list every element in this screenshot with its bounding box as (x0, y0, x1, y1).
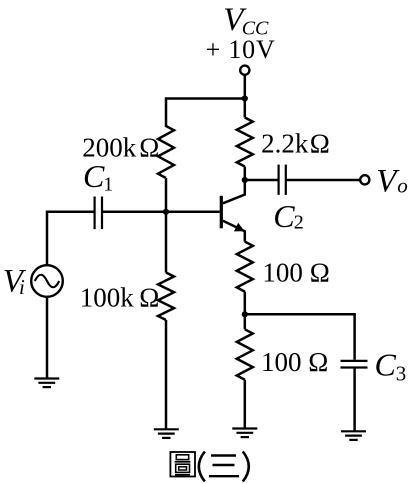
label C2 (273, 198, 304, 234)
wire R4 to node E (244, 292, 247, 315)
wire R5 to ground (244, 380, 247, 429)
wire 200k to base node (165, 178, 168, 212)
ground G1 (under Vi) (34, 379, 59, 388)
wire collector node to C2 (245, 179, 278, 182)
wire VCC lead (244, 75, 247, 99)
svg-text:2.2k: 2.2k (261, 128, 309, 158)
caption glyph SAN (three) (209, 456, 239, 477)
power terminal VCC (240, 66, 249, 75)
svg-text:o: o (397, 174, 408, 198)
label Vi (3, 263, 27, 299)
svg-text:Ω: Ω (308, 347, 328, 377)
svg-text:3: 3 (396, 362, 407, 386)
wire base node to 100k (165, 212, 168, 273)
wire Vi to ground (46, 297, 49, 379)
resistor R4 100 ohm (emitter upper) (237, 242, 253, 292)
svg-text:Ω: Ω (139, 282, 159, 312)
capacitor C2 (279, 165, 286, 195)
label VCC (223, 2, 269, 40)
svg-text:2: 2 (294, 212, 304, 234)
label 100 ohm (upper) (262, 257, 329, 287)
label 2.2k ohm (261, 128, 330, 158)
caption open paren (199, 452, 205, 482)
label 100k ohm (80, 282, 160, 312)
resistor R5 100 ohm (emitter lower) (237, 329, 253, 379)
svg-text:Ω: Ω (310, 128, 330, 158)
label 200k ohm (82, 133, 159, 163)
node A (supply rail junction) (242, 95, 248, 101)
wire C2 to Vo terminal (286, 179, 360, 182)
output terminal Vo (360, 175, 369, 184)
svg-text:1: 1 (103, 174, 113, 196)
wire C3 to ground (353, 368, 356, 432)
wire node E to C3 (245, 314, 355, 360)
resistor R1 200k (158, 126, 174, 178)
source Vi (sine generator) (31, 265, 63, 297)
ground G4 (under C3) (341, 431, 366, 440)
svg-text:i: i (19, 275, 25, 299)
label Vo (376, 163, 408, 199)
svg-text:C: C (83, 158, 105, 194)
svg-text:Ω: Ω (310, 257, 330, 287)
svg-text:Ω: Ω (139, 133, 159, 163)
capacitor C3 (341, 361, 368, 368)
caption glyph TU (figure) (170, 452, 195, 477)
svg-text:100: 100 (262, 257, 303, 287)
wire Vi to C1 (47, 212, 95, 265)
caption close paren (243, 452, 249, 482)
label 100 ohm (lower) (261, 347, 328, 377)
svg-text:100: 100 (261, 347, 302, 377)
wire rail to 2.2k (244, 99, 247, 118)
wire 2.2k to collector node (244, 167, 247, 181)
node C (collector node) (242, 177, 248, 183)
wire node E to R5 (244, 314, 247, 329)
resistor R3 2.2k (237, 118, 253, 167)
ground G2 (under 100k) (154, 429, 179, 438)
ground G3 (under R5) (232, 429, 257, 438)
svg-text:+ 10V: + 10V (206, 35, 276, 64)
resistor R2 100k (158, 273, 174, 321)
node E (emitter divider node) (242, 311, 248, 317)
wire 100k to ground (165, 320, 168, 429)
svg-text:C: C (375, 346, 397, 382)
svg-text:C: C (273, 198, 295, 234)
label C1 (83, 158, 113, 196)
wire top rail to 200k (166, 99, 245, 128)
wire base node to transistor base (102, 211, 220, 214)
node B (base node) (163, 209, 169, 215)
label C3 (375, 346, 407, 385)
capacitor C1 (95, 197, 102, 230)
transistor Q1 (NPN) (221, 180, 245, 242)
svg-text:100k: 100k (80, 282, 135, 312)
